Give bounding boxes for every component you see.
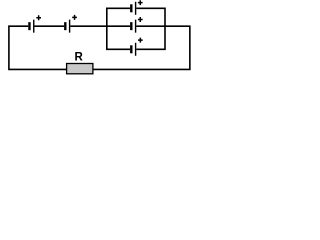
wire: between battery B1 and battery B2 bbox=[34, 25, 64, 27]
battery B5 (parallel bottom branch cell) bbox=[130, 38, 143, 56]
wire: left loop (battery B1 to bottom-left corner to resistor R left lead) bbox=[9, 26, 67, 69]
battery B2 (series cell 2) bbox=[64, 15, 77, 33]
svg-text:R: R bbox=[75, 51, 84, 63]
wire: middle branch battery B4 to right rail bbox=[136, 25, 165, 27]
battery B1 (series cell 1) bbox=[28, 15, 41, 32]
battery B4 (parallel middle branch cell) bbox=[130, 17, 143, 33]
battery B3 (parallel top branch cell) bbox=[130, 0, 143, 15]
wire: right rail to right side down to resistor R right lead bbox=[93, 26, 190, 69]
resistor R bbox=[67, 51, 93, 73]
wire: battery B2 to parallel block middle branch (through left rail junction) bbox=[70, 25, 130, 27]
wire: right rail of parallel block with top/bottom branch right segments bbox=[136, 8, 165, 49]
wire: left rail of parallel block with top/bottom branch left segments bbox=[107, 8, 130, 49]
